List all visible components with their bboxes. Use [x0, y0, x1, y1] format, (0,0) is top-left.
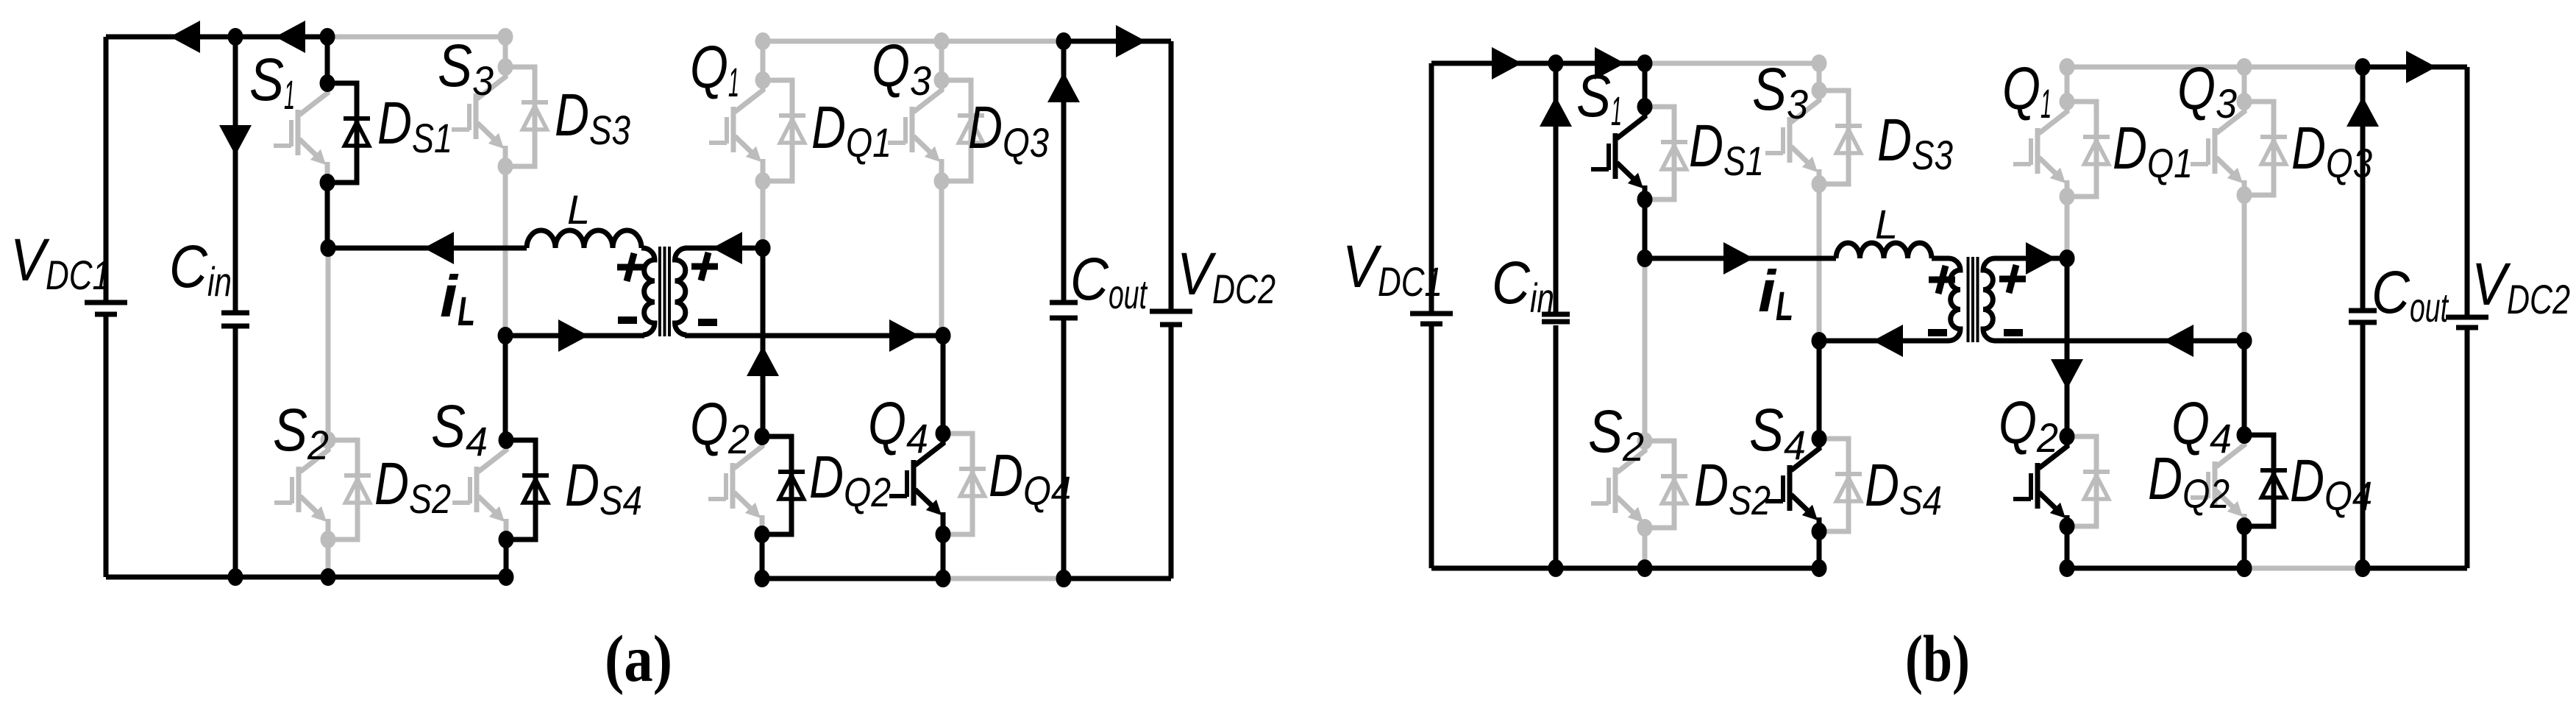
- wire Q1 collector lead (b): [2065, 67, 2070, 102]
- wire top rail (b) secondary black: [2363, 65, 2467, 70]
- node Cout top (a): [1056, 32, 1072, 50]
- node secondary top midpoint (b): [2060, 250, 2075, 267]
- wire right rail lower (a): [1169, 326, 1174, 579]
- diode DS2 (b): [1645, 441, 1687, 528]
- node S2 (b) collector: [1637, 432, 1653, 450]
- node S4 bottom rail (a): [499, 568, 514, 586]
- node S3 (a) collector: [498, 58, 513, 76]
- label secondary (b) - polarity: [2004, 329, 2023, 336]
- node S2 (b) emitter: [1637, 519, 1653, 537]
- battery VDC2 (a): [1150, 311, 1192, 325]
- wire transformer secondary top (a): [685, 246, 763, 251]
- label VDC1 (a): [10, 227, 110, 298]
- label DQ1 (a): [811, 94, 892, 166]
- node S3 (a) emitter: [498, 158, 513, 175]
- node Q1 (a) collector: [755, 71, 771, 89]
- node Cout bottom restated (a): [1056, 570, 1072, 587]
- node Cin bottom (b): [1548, 559, 1564, 577]
- wire left rail (b) lower: [1429, 325, 1434, 568]
- node Q2 (a) collector: [755, 428, 770, 445]
- wire Cin leg (b) upper: [1554, 63, 1559, 314]
- node bridge midpoint S (b): [1637, 250, 1653, 267]
- node Q4 (b) collector: [2237, 426, 2252, 444]
- wire top rail (b) secondary gray: [2067, 65, 2363, 70]
- wire top rail (a) primary black: [106, 35, 327, 40]
- node Q3 (a) collector: [934, 71, 950, 89]
- node Q3 (b) collector: [2237, 93, 2252, 110]
- label Cin (b): [1492, 250, 1554, 321]
- wire left rail (a) upper: [104, 37, 109, 301]
- label DQ2 (b): [2148, 445, 2230, 517]
- wire Cin leg (a) upper: [233, 37, 238, 311]
- transformer T (b) secondary winding: [1983, 258, 1995, 341]
- diode DS3 (b): [1819, 91, 1862, 184]
- label primary (a) + polarity: [617, 253, 644, 281]
- wire S4 emitter lead (b): [1817, 531, 1822, 568]
- label figure (b): [1905, 623, 1970, 696]
- current arrow Cout leg (a): [1047, 72, 1080, 102]
- label Cout (b): [2372, 259, 2449, 330]
- node S1 (b) emitter: [1637, 191, 1653, 208]
- wire S4 emitter lead (a): [504, 540, 509, 577]
- wire S1-S2 midpoint lower gray (b): [1643, 258, 1648, 441]
- current arrow top rail (b) 2: [1595, 47, 1625, 79]
- node S1 (a) emitter: [320, 174, 335, 191]
- diode DQ2 (b): [2067, 436, 2110, 526]
- label iL (b): [1758, 258, 1793, 329]
- node secondary top midpoint restated (b): [2060, 250, 2075, 267]
- wire Q3 collector lead (b): [2242, 67, 2247, 102]
- label secondary (a) - polarity: [698, 319, 717, 326]
- node secondary bottom midpoint (b): [2237, 332, 2252, 350]
- wire Q4 emitter lead (b): [2242, 526, 2247, 568]
- transistor Q3 (b): [2191, 102, 2246, 195]
- transformer T (b) core: [1968, 257, 1978, 342]
- wire Q2 emitter lead (b): [2065, 526, 2070, 568]
- node S4 (a) emitter: [499, 531, 514, 548]
- wire bottom rail secondary gray (a): [943, 576, 1064, 581]
- node secondary top midpoint restated (a): [755, 239, 771, 257]
- node Q1 top rail (b): [2060, 58, 2075, 76]
- wire Q1 emitter to midpoint (b): [2065, 197, 2070, 258]
- wire Q3 collector lead (a): [939, 41, 944, 80]
- label DQ4 (b): [2290, 448, 2372, 519]
- current arrow secondary top (b): [2026, 242, 2056, 275]
- node bridge midpoint S restated (a): [321, 239, 336, 257]
- wire S1-S2 midpoint upper (a): [325, 183, 330, 248]
- wire Q1 emitter to midpoint (a): [761, 181, 766, 248]
- label S4 (b): [1749, 397, 1806, 468]
- node secondary bottom midpoint (a): [936, 327, 951, 344]
- wire bottom rail secondary black 2 (a): [1064, 576, 1171, 581]
- node Q1 (a) emitter: [755, 172, 771, 190]
- capacitor Cin (a): [221, 313, 249, 326]
- node S1 top rail (a): [320, 28, 335, 46]
- label VDC1 (b): [1342, 233, 1442, 305]
- diode DS1 (b): [1645, 107, 1687, 199]
- node Q4 (a) collector: [936, 425, 951, 442]
- wire bottom rail secondary gray (b): [2244, 566, 2363, 571]
- label DS2 (b): [1694, 452, 1771, 523]
- wire Q4 emitter lead (a): [941, 534, 946, 579]
- label DS1 (a): [377, 90, 452, 161]
- node Cout top (b): [2355, 58, 2371, 76]
- wire transformer secondary top (b): [1995, 256, 2067, 261]
- node Cin top (a): [228, 28, 243, 46]
- node S3 top rail (a): [498, 28, 513, 46]
- node Q3 (b) emitter: [2237, 186, 2252, 204]
- transistor Q4 (a): [889, 434, 944, 534]
- node Q2 (b) collector: [2060, 428, 2075, 445]
- node S4 (a) collector: [499, 431, 514, 449]
- wire transformer secondary bottom (a): [685, 333, 943, 339]
- wire left rail (a) lower: [104, 316, 109, 577]
- node Q3 top rail (b): [2237, 58, 2252, 76]
- label S1 (b): [1576, 63, 1622, 134]
- current arrow top rail (a) secondary: [1116, 25, 1146, 57]
- wire Cout leg lower (b): [2360, 324, 2366, 568]
- wire transformer primary bottom (a): [505, 333, 644, 339]
- label primary (a) - polarity: [618, 316, 637, 324]
- diode DQ4 (b): [2244, 435, 2287, 526]
- diode DQ2 (a): [762, 436, 805, 534]
- wire Cin leg (a) lower: [233, 328, 238, 577]
- label secondary (a) + polarity: [691, 252, 718, 280]
- wire inductor to transformer (a): [641, 246, 644, 251]
- node Q1 (b) collector: [2060, 93, 2075, 110]
- label DS1 (b): [1689, 113, 1764, 184]
- transformer T (b) primary winding: [1949, 258, 1960, 341]
- wire right rail upper (a): [1169, 41, 1174, 310]
- transistor S2 (b): [1591, 441, 1646, 528]
- current arrow top rail (a) 2: [275, 21, 305, 53]
- node Q3 top rail (a): [934, 32, 950, 50]
- label S1 (a): [249, 46, 295, 118]
- capacitor Cout (b): [2349, 311, 2377, 322]
- node Q2 (a) emitter: [755, 526, 770, 543]
- label DQ3 (a): [968, 94, 1049, 166]
- battery VDC1 (a): [85, 303, 127, 314]
- node Q4 bottom rail restated (b): [2237, 559, 2252, 577]
- label Cin (a): [169, 233, 232, 305]
- current arrow top rail (b) 1: [1492, 47, 1522, 79]
- node bridge midpoint S (a): [321, 239, 336, 257]
- wire S1-S2 midpoint upper (b): [1643, 199, 1648, 258]
- node secondary bottom midpoint restated (a): [936, 327, 951, 344]
- node S1 (b) collector: [1637, 98, 1653, 116]
- current arrow iL (b): [1723, 242, 1754, 275]
- wire bottom rail (b) primary: [1431, 566, 1819, 571]
- node Q1 top rail (a): [755, 32, 771, 50]
- label primary (b) - polarity: [1928, 329, 1947, 336]
- wire right rail lower (b): [2465, 329, 2470, 568]
- node Q4 bottom rail restated (a): [936, 570, 951, 587]
- current arrow secondary top (a): [712, 232, 742, 264]
- current arrow top rail (b) secondary: [2406, 51, 2436, 83]
- current arrow primary bottom (b): [1873, 325, 1903, 357]
- svg-text:(a): (a): [605, 623, 672, 696]
- node S1 top rail (b): [1637, 54, 1653, 72]
- wire top rail (b) primary gray segment: [1645, 61, 1819, 66]
- current arrow primary bottom (a): [558, 319, 588, 352]
- wire S2 emitter lead (a): [326, 540, 331, 577]
- current arrow secondary bottom (b): [2163, 325, 2193, 357]
- label DQ2 (a): [809, 444, 891, 515]
- diode DQ1 (b): [2067, 102, 2110, 197]
- diode DS1 (a): [327, 83, 370, 183]
- node Cin top (b): [1548, 54, 1564, 72]
- label DQ1 (b): [2113, 115, 2193, 186]
- label S3 (b): [1752, 56, 1808, 127]
- current arrow Cin leg (b): [1540, 96, 1572, 127]
- label iL (a): [440, 263, 475, 334]
- diode DQ4 (a): [943, 434, 986, 534]
- label figure (a): [605, 623, 672, 696]
- current arrow Cin leg (a): [219, 125, 252, 155]
- label Cout (a): [1070, 246, 1148, 317]
- wire midpoint to S4 black (a): [503, 336, 508, 440]
- label DQ3 (b): [2291, 115, 2372, 186]
- wire Q2 emitter lead (a): [760, 534, 765, 579]
- label VDC2 (b): [2472, 251, 2570, 322]
- label Q3 (a): [872, 32, 931, 104]
- svg-text:(b): (b): [1905, 623, 1970, 696]
- diode DS4 (b): [1819, 439, 1862, 531]
- node S1 (a) collector: [320, 74, 335, 92]
- wire inductor branch (a): [328, 246, 527, 251]
- battery VDC1 (b): [1410, 314, 1453, 324]
- label Q4 (b): [2171, 390, 2232, 461]
- wire Q1 collector lead (a): [761, 41, 766, 80]
- node Q2 bottom rail (b): [2060, 559, 2075, 577]
- label DS2 (a): [374, 450, 451, 522]
- transistor Q1 (a): [709, 80, 764, 181]
- transistor S3 (a): [452, 67, 507, 166]
- wire top rail (a) secondary gray: [763, 39, 1064, 44]
- transistor S4 (b): [1765, 439, 1821, 531]
- transformer T (a) secondary winding: [675, 248, 687, 335]
- node S3 (b) collector: [1812, 82, 1827, 99]
- transistor Q2 (a): [708, 436, 764, 534]
- label Q1 (b): [2002, 55, 2052, 127]
- current arrow iL (a): [424, 232, 454, 264]
- diode DQ1 (a): [763, 80, 805, 181]
- node Cout bottom (b): [2355, 559, 2371, 577]
- wire midpoint to Q4 black (b): [2242, 341, 2247, 435]
- transistor Q3 (a): [888, 80, 943, 181]
- node Q4 (a) emitter: [936, 526, 951, 543]
- node bridge midpoint S restated (b): [1637, 250, 1653, 267]
- node secondary bottom midpoint restated (b): [2237, 332, 2252, 350]
- transistor Q2 (b): [2013, 436, 2068, 526]
- node Q1 (b) emitter: [2060, 188, 2075, 205]
- node Q2 (b) emitter: [2060, 517, 2075, 535]
- transistor S4 (a): [452, 440, 508, 540]
- wire transformer primary bottom (b): [1819, 339, 1949, 344]
- current arrow Q2 leg (b): [2051, 359, 2083, 389]
- wire inductor branch (b): [1645, 256, 1836, 261]
- node S2 bottom rail (a): [321, 568, 336, 586]
- current arrow Q2 leg (a): [747, 346, 779, 376]
- node Q4 bottom rail (b): [2237, 559, 2252, 577]
- node S3 top rail (b): [1812, 54, 1827, 72]
- transistor S2 (a): [274, 440, 330, 540]
- label S2 (a): [273, 397, 329, 468]
- transformer T (a) core: [660, 247, 669, 336]
- node S2 (a) collector: [321, 431, 336, 449]
- wire S3 emitter to midpoint gray (b): [1817, 184, 1822, 341]
- label DS3 (a): [555, 82, 630, 153]
- capacitor Cout (a): [1050, 303, 1078, 318]
- wire Cout leg upper (a): [1061, 41, 1067, 301]
- inductor L (b): [1836, 243, 1932, 258]
- wire Cin leg (b) lower: [1554, 325, 1559, 568]
- label Q2 (a): [690, 391, 750, 462]
- label VDC2 (a): [1177, 241, 1275, 312]
- diode DQ3 (a): [942, 80, 984, 181]
- wire midpoint to Q4 black (a): [941, 336, 946, 434]
- wire Cout leg upper (b): [2360, 67, 2366, 309]
- wire top rail (a) secondary black: [1064, 39, 1171, 44]
- wire Q3 emitter to midpoint gray (a): [939, 181, 944, 336]
- label S3 (a): [438, 32, 494, 104]
- wire Cout leg lower (a): [1061, 319, 1067, 579]
- label primary (b) + polarity: [1929, 266, 1955, 294]
- wire S3 collector lead (a): [503, 37, 508, 67]
- wire S2 emitter lead (b): [1643, 528, 1648, 568]
- wire top rail (b) primary black: [1431, 61, 1645, 66]
- wire inductor to transformer (b): [1932, 256, 1949, 261]
- battery VDC2 (b): [2446, 317, 2488, 328]
- label L (a): [567, 186, 590, 233]
- svg-text:L: L: [567, 186, 590, 233]
- transformer T (a) primary winding: [643, 248, 655, 335]
- current arrow top rail (a) 1: [170, 21, 200, 53]
- wire S1 collector lead (a): [325, 37, 330, 83]
- node S4 (b) collector: [1812, 430, 1827, 448]
- wire midpoint to Q2 black (a): [761, 248, 766, 436]
- node S4 bottom rail (b): [1812, 559, 1827, 577]
- diode DS4 (a): [506, 440, 549, 540]
- wire S1-S2 midpoint lower gray (a): [326, 248, 331, 440]
- inductor L (a): [527, 230, 641, 248]
- node primary bottom corner (b): [1812, 332, 1827, 350]
- label DQ4 (a): [989, 442, 1071, 514]
- wire S1 collector lead (b): [1643, 63, 1648, 107]
- wire midpoint to S4 black (b): [1817, 341, 1822, 439]
- transistor S1 (b): [1591, 107, 1646, 199]
- label DS4 (b): [1865, 452, 1942, 523]
- node Q4 bottom rail (a): [936, 570, 951, 587]
- transistor Q1 (b): [2013, 102, 2068, 197]
- wire Q3 emitter to midpoint gray (b): [2242, 195, 2247, 341]
- label L (b): [1875, 201, 1898, 247]
- capacitor Cin (b): [1542, 314, 1570, 322]
- transistor S1 (a): [274, 83, 329, 183]
- wire S3 collector lead (b): [1817, 63, 1822, 91]
- wire right rail upper (b): [2465, 67, 2470, 316]
- diode DQ3 (b): [2244, 102, 2287, 195]
- node secondary top midpoint (a): [755, 239, 771, 257]
- node S3 (b) emitter: [1812, 175, 1827, 193]
- wire midpoint to Q2 black (b): [2065, 258, 2070, 436]
- label S2 (b): [1588, 398, 1644, 470]
- label S4 (a): [431, 393, 488, 464]
- wire transformer secondary bottom (b): [1995, 339, 2244, 344]
- transistor S3 (b): [1765, 91, 1821, 184]
- wire bottom rail secondary black 2 (b): [2363, 566, 2467, 571]
- label Q4 (a): [868, 390, 928, 461]
- label DS3 (b): [1877, 107, 1953, 178]
- label Q3 (b): [2177, 55, 2237, 127]
- diode DS2 (a): [328, 440, 371, 540]
- current arrow Cout leg (b): [2346, 96, 2379, 127]
- svg-text:L: L: [1875, 201, 1898, 247]
- wire bottom rail (a) primary: [106, 575, 506, 580]
- node Cin bottom (a): [228, 568, 243, 586]
- node S4 (b) emitter: [1812, 523, 1827, 540]
- label secondary (b) + polarity: [1999, 265, 2026, 293]
- node Cout bottom (a): [1056, 570, 1072, 587]
- node Q2 bottom rail (a): [755, 570, 770, 587]
- node Q4 (b) emitter: [2237, 517, 2252, 535]
- node Q3 (a) emitter: [934, 172, 950, 190]
- label Q2 (b): [1999, 389, 2058, 461]
- diode DS3 (a): [505, 67, 548, 166]
- node S2 bottom rail (b): [1637, 559, 1653, 577]
- current arrow secondary bottom (a): [889, 319, 919, 352]
- label DS4 (a): [565, 452, 642, 523]
- node primary bottom corner (a): [498, 327, 513, 344]
- label Q1 (a): [690, 34, 739, 105]
- node S2 (a) emitter: [321, 531, 336, 548]
- transistor Q4 (b): [2191, 435, 2246, 526]
- wire top rail (a) primary gray segment: [327, 35, 505, 40]
- wire bottom rail secondary black 1 (b): [2067, 566, 2244, 571]
- wire left rail (b) upper: [1429, 63, 1434, 312]
- wire bottom rail secondary black 1 (a): [762, 576, 943, 581]
- node Cout bottom restated (b): [2355, 559, 2371, 577]
- wire S3 emitter to midpoint gray (a): [503, 166, 508, 336]
